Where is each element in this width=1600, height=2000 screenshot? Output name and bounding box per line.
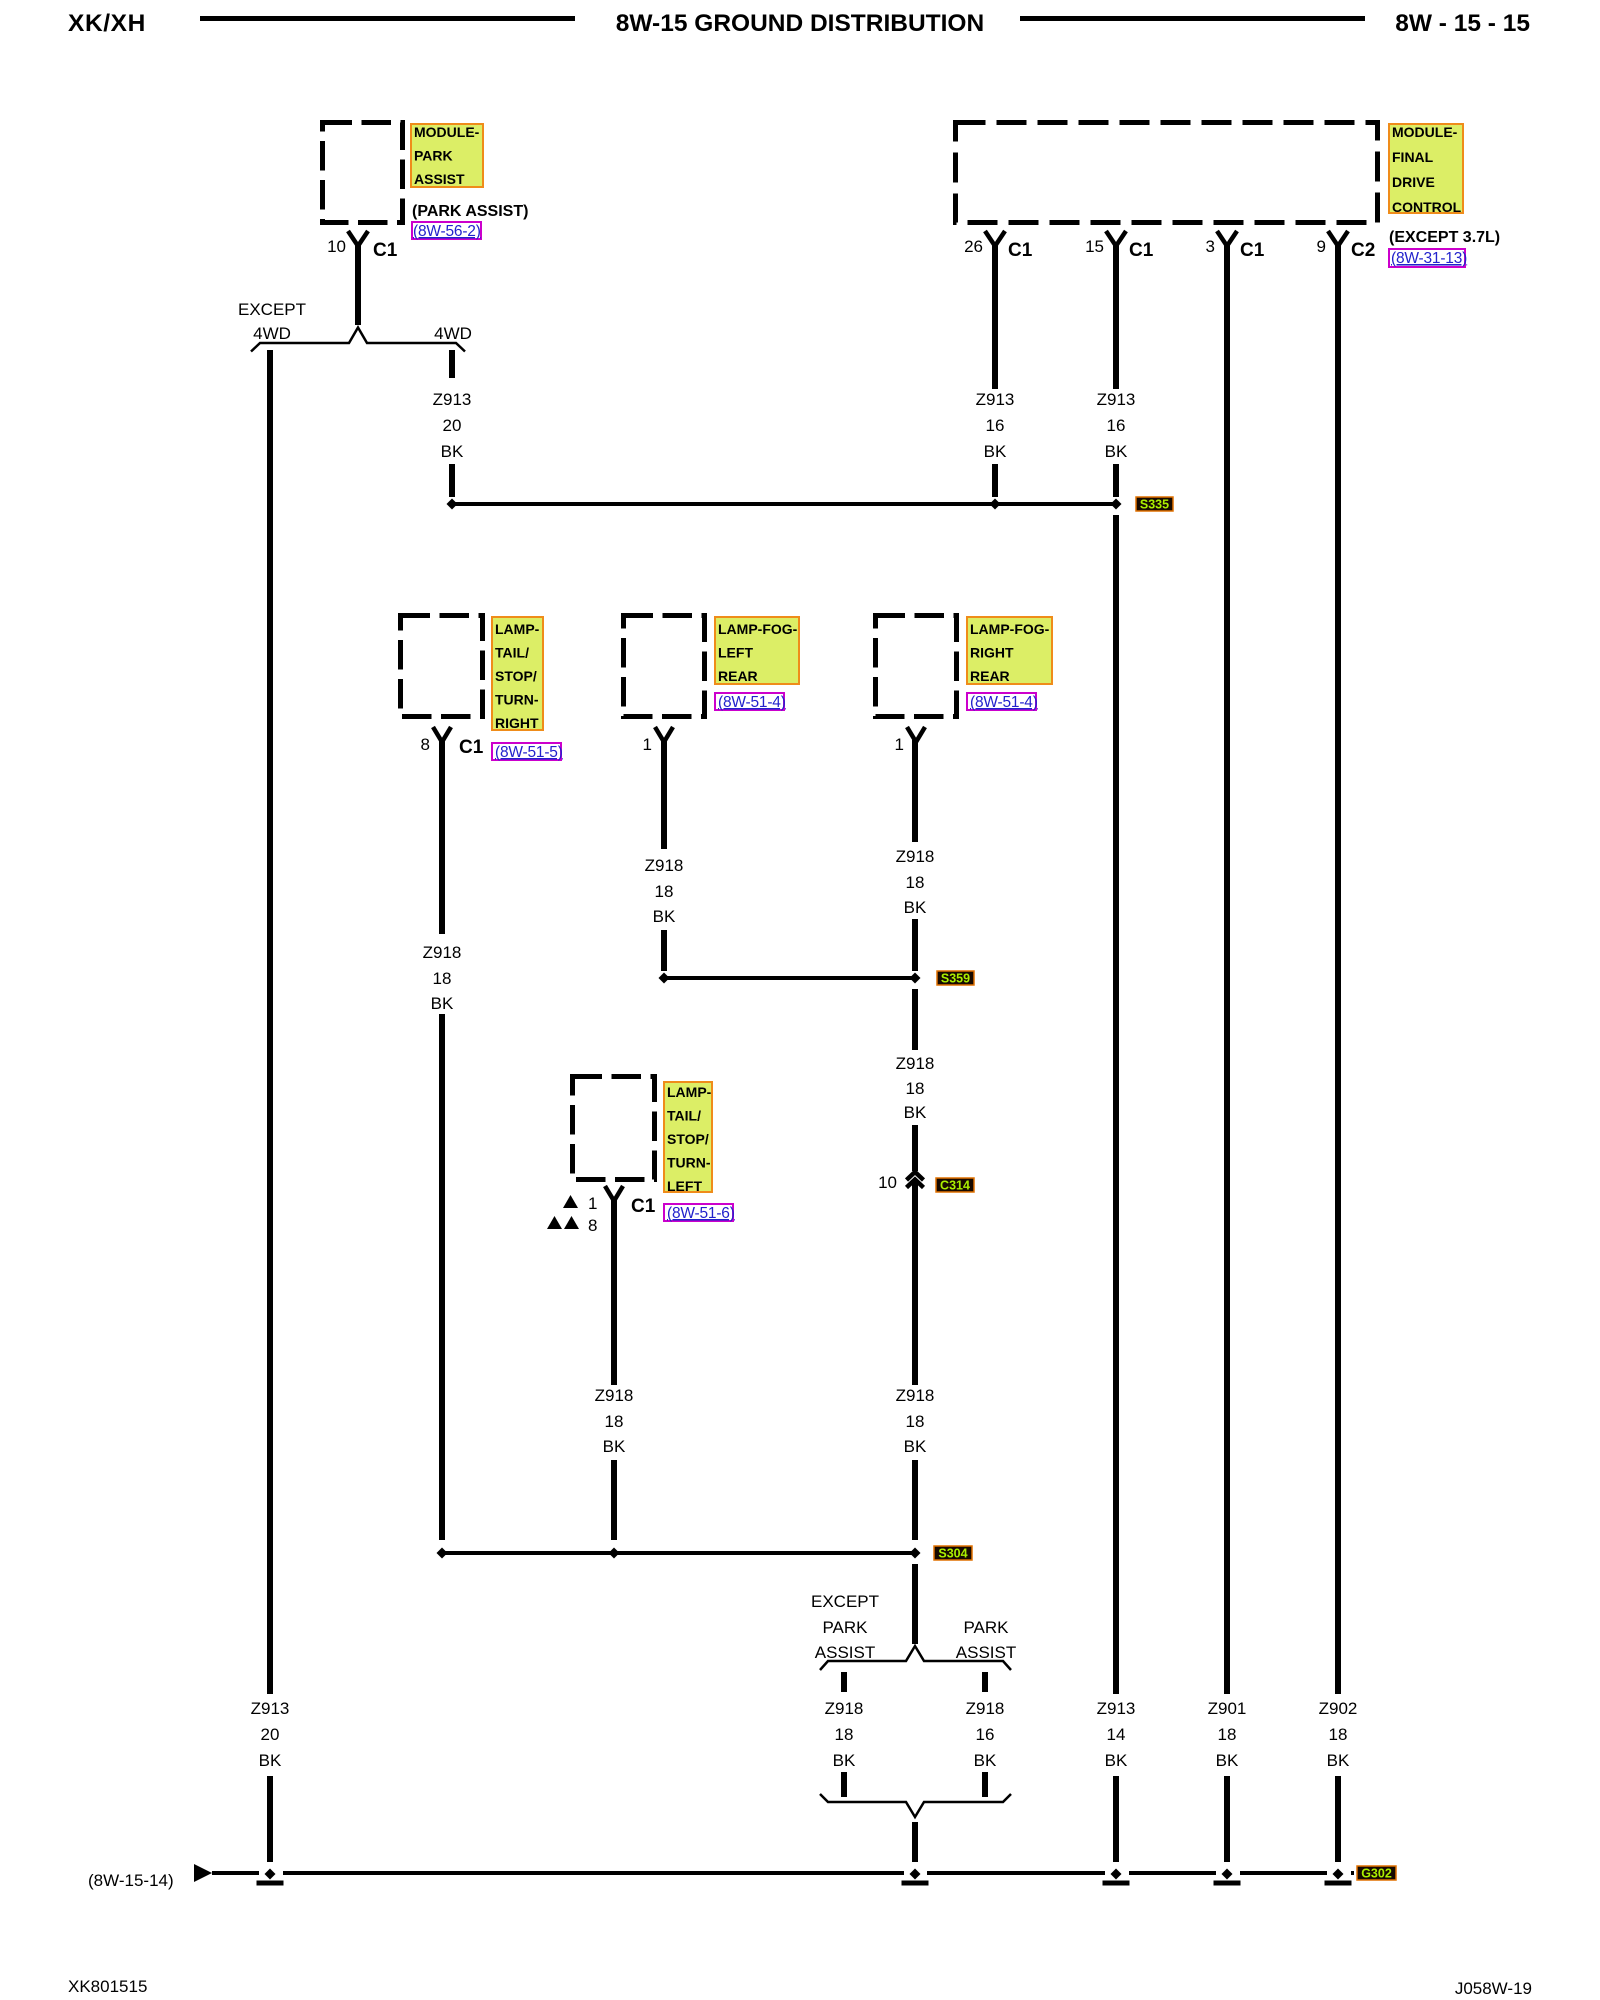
wire J labels Z918 18 BK — [595, 1386, 634, 1456]
svg-text:26: 26 — [964, 237, 983, 256]
svg-text:10: 10 — [327, 237, 346, 256]
junction diamond at wire D / S335 — [1111, 499, 1122, 510]
svg-text:9: 9 — [1317, 237, 1326, 256]
junction diamond at wire H / S359 — [659, 973, 670, 984]
option merge brace — [820, 1794, 1011, 1817]
splice S359 horizontal wire — [664, 976, 915, 980]
lamp L4 reference link (8W-51-6) — [664, 1204, 735, 1222]
ground tick under wire E — [1214, 1881, 1241, 1886]
svg-text:C1: C1 — [459, 737, 484, 758]
lamp L4: LAMP-TAIL/STOP/TURN-LEFT dashed outline — [573, 1077, 655, 1180]
junction diamond at wire I / S359 — [910, 973, 921, 984]
svg-text:Z918: Z918 — [896, 1386, 935, 1405]
svg-text:BK: BK — [974, 1751, 997, 1770]
lamp L2 reference link (8W-51-4) — [715, 693, 786, 711]
pin 1 on L3 — [895, 727, 925, 754]
wire below C314 — [912, 1181, 918, 1385]
svg-text:Z918: Z918 — [966, 1699, 1005, 1718]
svg-text:LAMP-: LAMP- — [495, 621, 540, 637]
svg-text:CONTROL: CONTROL — [1392, 199, 1462, 215]
svg-text:PARK: PARK — [414, 148, 453, 164]
pin 1 on L2 — [643, 727, 673, 754]
svg-text:C1: C1 — [1008, 240, 1033, 261]
lamp L3 reference link (8W-51-4) — [967, 693, 1038, 711]
module U1 reference link (8W-56-2) — [412, 222, 481, 240]
svg-text:8W-15 GROUND DISTRIBUTION: 8W-15 GROUND DISTRIBUTION — [616, 10, 984, 37]
pin 15 of connector C1 on U2 — [1085, 231, 1154, 261]
svg-text:XK801515: XK801515 — [68, 1977, 147, 1996]
svg-text:8: 8 — [588, 1216, 597, 1235]
module U2 label: MODULE-FINAL DRIVE CONTROL (highlighted) — [1389, 124, 1463, 215]
svg-text:BK: BK — [984, 442, 1007, 461]
svg-text:BK: BK — [1216, 1751, 1239, 1770]
svg-text:S335: S335 — [1140, 498, 1169, 512]
svg-text:TURN-: TURN- — [495, 692, 539, 708]
wire below S304 — [912, 1564, 918, 1644]
variant marker double triangle pin 8 — [547, 1216, 597, 1235]
ground tick under park-assist branch — [902, 1881, 929, 1886]
svg-text:1: 1 — [643, 735, 652, 754]
svg-text:BK: BK — [603, 1437, 626, 1456]
svg-text:BK: BK — [1105, 1751, 1128, 1770]
svg-text:1: 1 — [588, 1194, 597, 1213]
svg-text:LEFT: LEFT — [718, 645, 753, 661]
svg-text:Z913: Z913 — [433, 390, 472, 409]
branch wire right labels Z918 16 BK — [966, 1699, 1005, 1770]
svg-text:4WD: 4WD — [434, 324, 472, 343]
junction diamond wire D / bus — [1111, 1869, 1122, 1880]
lamp L2: LAMP-FOG-LEFT REAR dashed outline — [624, 616, 705, 717]
wire G long segment to S304 — [439, 1014, 445, 1540]
svg-text:(8W-15-14): (8W-15-14) — [88, 1871, 174, 1890]
option split brace (EXCEPT 4WD / 4WD) — [251, 328, 465, 352]
module U1 label: MODULE-PARK ASSIST (highlighted) — [411, 124, 483, 187]
svg-text:S359: S359 — [941, 972, 970, 986]
wire from merge to ground bus — [912, 1822, 918, 1862]
ground tick under wire D — [1103, 1881, 1130, 1886]
svg-text:PARK: PARK — [963, 1618, 1009, 1637]
svg-text:C1: C1 — [1240, 240, 1265, 261]
svg-text:8: 8 — [421, 735, 430, 754]
branch wire left (EXCEPT PARK ASSIST) upper stub — [841, 1672, 847, 1692]
svg-text:J058W-19: J058W-19 — [1455, 1979, 1532, 1998]
wire B labels Z913 20 BK — [433, 390, 472, 461]
svg-text:Z918: Z918 — [423, 943, 462, 962]
svg-text:ASSIST: ASSIST — [414, 171, 465, 187]
svg-text:BK: BK — [904, 1437, 927, 1456]
lamp L1 reference link (8W-51-5) — [492, 743, 563, 761]
pin 3 of connector C1 on U2 — [1206, 231, 1265, 261]
svg-text:RIGHT: RIGHT — [495, 715, 539, 731]
svg-text:REAR: REAR — [970, 668, 1010, 684]
wire E lower segment to ground bus — [1224, 1776, 1230, 1862]
ground bus segment 3 — [927, 1871, 1105, 1875]
svg-text:10: 10 — [878, 1173, 897, 1192]
junction diamond at wire B / S335 — [447, 499, 458, 510]
branch wire right lower stub — [982, 1772, 988, 1797]
wire J: Z918 18 BK from L4 — [611, 1199, 617, 1385]
ground bus segment 5 — [1240, 1871, 1327, 1875]
wire A labels Z913 20 BK — [251, 1699, 290, 1770]
branch wire left labels Z918 18 BK — [825, 1699, 864, 1770]
svg-text:(8W-31-13): (8W-31-13) — [1391, 250, 1467, 267]
svg-text:TURN-: TURN- — [667, 1155, 711, 1171]
lamp L1 label: LAMP-TAIL/STOP/TURN-RIGHT (highlighted) — [492, 617, 543, 731]
header rule left — [200, 16, 575, 21]
splice S335 horizontal wire — [452, 502, 1116, 506]
svg-text:STOP/: STOP/ — [667, 1131, 709, 1147]
svg-text:MODULE-: MODULE- — [414, 124, 480, 140]
svg-text:(EXCEPT 3.7L): (EXCEPT 3.7L) — [1389, 229, 1500, 246]
wire B lower segment to splice line — [449, 464, 455, 497]
junction diamond at wire J / S304 — [609, 1548, 620, 1559]
svg-text:LEFT: LEFT — [667, 1178, 702, 1194]
wire H labels Z918 18 BK — [645, 856, 684, 926]
svg-text:C1: C1 — [1129, 240, 1154, 261]
svg-text:BK: BK — [431, 994, 454, 1013]
wire B: Z913 20 BK (4WD) upper segment — [449, 350, 455, 378]
svg-text:1: 1 — [895, 735, 904, 754]
wire F lower segment to ground bus — [1335, 1776, 1341, 1862]
svg-text:18: 18 — [433, 969, 452, 988]
svg-text:C314: C314 — [940, 1179, 970, 1193]
option label PARK ASSIST — [956, 1618, 1016, 1662]
lamp L1: LAMP-TAIL/STOP/TURN-RIGHT dashed outline — [401, 616, 483, 717]
wire F labels Z902 18 BK — [1319, 1699, 1358, 1770]
svg-text:Z913: Z913 — [1097, 390, 1136, 409]
pin 26 of connector C1 on U2 — [964, 231, 1033, 261]
wire segment into connector C314 — [912, 1125, 918, 1171]
svg-text:Z913: Z913 — [976, 390, 1015, 409]
ground bus wire to G302 — [212, 1871, 259, 1875]
wire H lower segment to S359 — [661, 930, 667, 971]
svg-text:BK: BK — [441, 442, 464, 461]
svg-text:18: 18 — [906, 1412, 925, 1431]
svg-text:G302: G302 — [1361, 1867, 1392, 1881]
pin 8 of connector C1 on L1 — [421, 727, 484, 758]
svg-text:18: 18 — [1218, 1725, 1237, 1744]
wire A lower segment to ground bus — [267, 1776, 273, 1862]
wire F: Z902 18 BK from U2 pin 9 — [1335, 244, 1341, 1694]
wire I labels Z918 18 BK — [896, 847, 935, 917]
svg-text:16: 16 — [986, 416, 1005, 435]
branch wire right (PARK ASSIST) upper stub — [982, 1672, 988, 1692]
svg-text:EXCEPT: EXCEPT — [238, 300, 306, 319]
ground tick under wire F — [1325, 1881, 1352, 1886]
wire I: Z918 18 BK from L3 pin 1 — [912, 740, 918, 842]
lamp L4 label: LAMP-TAIL/STOP/TURN-LEFT (highlighted) — [664, 1082, 712, 1194]
svg-text:Z918: Z918 — [595, 1386, 634, 1405]
wire C: Z913 16 BK from U2 pin 26 — [992, 244, 998, 389]
svg-text:LAMP-FOG-: LAMP-FOG- — [718, 621, 798, 637]
svg-text:Z901: Z901 — [1208, 1699, 1247, 1718]
junction diamond at wire I / S304 — [910, 1548, 921, 1559]
wire I lower segment to S359 — [912, 919, 918, 971]
svg-text:EXCEPT: EXCEPT — [811, 1592, 879, 1611]
svg-text:BK: BK — [653, 907, 676, 926]
svg-text:LAMP-: LAMP- — [667, 1084, 712, 1100]
pin 10 of connector C1 on U1 — [327, 231, 398, 261]
svg-text:3: 3 — [1206, 237, 1215, 256]
wire A: Z913 20 BK (EXCEPT 4WD) long vertical — [267, 350, 273, 1694]
svg-text:C2: C2 — [1351, 240, 1375, 261]
wire C labels Z913 16 BK — [976, 390, 1015, 461]
wire D lower segment to ground bus — [1113, 1776, 1119, 1862]
wire E labels Z901 18 BK — [1208, 1699, 1247, 1770]
lamp L3: LAMP-FOG-RIGHT REAR dashed outline — [876, 616, 957, 717]
svg-text:18: 18 — [1329, 1725, 1348, 1744]
svg-text:20: 20 — [261, 1725, 280, 1744]
svg-text:BK: BK — [904, 898, 927, 917]
wire segment to S304 (right) — [912, 1460, 918, 1540]
svg-text:RIGHT: RIGHT — [970, 645, 1014, 661]
svg-text:15: 15 — [1085, 237, 1104, 256]
junction diamond wire F / bus — [1333, 1869, 1344, 1880]
lamp L2 label: LAMP-FOG-LEFT REAR (highlighted) — [715, 617, 799, 684]
ground label G302 — [1357, 1866, 1396, 1881]
svg-text:ASSIST: ASSIST — [815, 1643, 875, 1662]
svg-text:S304: S304 — [938, 1547, 967, 1561]
junction diamond park-assist branch / bus — [910, 1869, 921, 1880]
module U2: MODULE-FINAL DRIVE CONTROL dashed outline — [956, 123, 1378, 223]
wire G: Z918 18 BK from L1 pin 8 — [439, 740, 445, 934]
wire below S359: Z918 18 BK — [912, 989, 918, 1050]
svg-text:TAIL/: TAIL/ — [667, 1108, 701, 1124]
connector C1 on L4 — [605, 1186, 656, 1217]
wire labels Z918 18 BK above S304 (right) — [896, 1386, 935, 1456]
splice S304 horizontal wire — [442, 1551, 915, 1555]
svg-text:PARK: PARK — [822, 1618, 868, 1637]
wire C lower segment to splice line — [992, 464, 998, 497]
branch wire left lower stub — [841, 1772, 847, 1797]
svg-text:XK/XH: XK/XH — [68, 10, 146, 37]
svg-text:16: 16 — [976, 1725, 995, 1744]
lamp L3 label: LAMP-FOG-RIGHT REAR (highlighted) — [967, 617, 1052, 684]
junction diamond at wire C / S335 — [990, 499, 1001, 510]
svg-text:BK: BK — [1327, 1751, 1350, 1770]
svg-text:4WD: 4WD — [253, 324, 291, 343]
svg-text:ASSIST: ASSIST — [956, 1643, 1016, 1662]
wire labels Z918 18 BK above C314 — [896, 1054, 935, 1122]
svg-text:Z913: Z913 — [251, 1699, 290, 1718]
svg-text:BK: BK — [1105, 442, 1128, 461]
wire G labels Z918 18 BK — [423, 943, 462, 1013]
svg-text:STOP/: STOP/ — [495, 668, 537, 684]
svg-text:(8W-56-2): (8W-56-2) — [413, 223, 481, 240]
wire from U1 pin 10 down to option split — [355, 244, 361, 325]
wire D labels Z913 14 BK — [1097, 1699, 1136, 1770]
wire H: Z918 18 BK from L2 pin 1 — [661, 740, 667, 849]
splice label S335 — [1136, 497, 1173, 512]
svg-text:14: 14 — [1107, 1725, 1126, 1744]
ground bus segment 2 — [283, 1871, 904, 1875]
svg-text:Z913: Z913 — [1097, 1699, 1136, 1718]
option label EXCEPT PARK ASSIST — [811, 1592, 879, 1662]
svg-text:FINAL: FINAL — [1392, 149, 1434, 165]
svg-text:16: 16 — [1107, 416, 1126, 435]
splice label S304 — [934, 1546, 972, 1561]
svg-text:(8W-51-5): (8W-51-5) — [495, 744, 563, 761]
svg-text:BK: BK — [259, 1751, 282, 1770]
svg-text:Z918: Z918 — [825, 1699, 864, 1718]
connector label C314 — [936, 1178, 974, 1193]
svg-text:18: 18 — [835, 1725, 854, 1744]
wire J segment to S304 — [611, 1460, 617, 1540]
svg-text:BK: BK — [833, 1751, 856, 1770]
variant marker triangle pin 1 — [563, 1194, 597, 1213]
svg-text:Z918: Z918 — [645, 856, 684, 875]
svg-text:C1: C1 — [631, 1196, 656, 1217]
junction diamond wire A / bus — [265, 1869, 276, 1880]
option split brace (EXCEPT PARK ASSIST / PARK ASSIST) — [820, 1646, 1011, 1670]
svg-text:18: 18 — [906, 1079, 925, 1098]
wire D segment to splice S335 — [1113, 464, 1119, 497]
wire E: Z901 18 BK from U2 pin 3 — [1224, 244, 1230, 1694]
pin 9 of connector C2 on U2 — [1317, 231, 1376, 261]
svg-text:DRIVE: DRIVE — [1392, 174, 1435, 190]
svg-text:(8W-51-4): (8W-51-4) — [970, 694, 1038, 711]
svg-text:(8W-51-4): (8W-51-4) — [718, 694, 786, 711]
svg-text:C1: C1 — [373, 240, 398, 261]
wire D long segment below S335 — [1113, 515, 1119, 1694]
svg-text:8W - 15 - 15: 8W - 15 - 15 — [1395, 10, 1530, 37]
ground bus segment 6 — [1351, 1871, 1354, 1875]
header rule right — [1020, 16, 1365, 21]
ground bus segment 4 — [1129, 1871, 1216, 1875]
module U1: MODULE-PARK ASSIST dashed outline — [323, 123, 403, 223]
in-line connector C314 (pin 10) — [907, 1172, 924, 1188]
ground tick under wire A — [257, 1881, 284, 1886]
module U2 reference link (8W-31-13) — [1389, 249, 1467, 267]
svg-text:Z918: Z918 — [896, 1054, 935, 1073]
svg-text:REAR: REAR — [718, 668, 758, 684]
svg-text:LAMP-FOG-: LAMP-FOG- — [970, 621, 1050, 637]
junction diamond wire E / bus — [1222, 1869, 1233, 1880]
svg-text:MODULE-: MODULE- — [1392, 124, 1458, 140]
svg-text:18: 18 — [906, 873, 925, 892]
svg-text:18: 18 — [655, 882, 674, 901]
off-page arrow — [194, 1864, 212, 1882]
svg-text:(PARK ASSIST): (PARK ASSIST) — [412, 203, 528, 220]
svg-text:20: 20 — [443, 416, 462, 435]
wire D labels Z913 16 BK — [1097, 390, 1136, 461]
junction diamond at wire G / S304 — [437, 1548, 448, 1559]
wire D: Z913 16 BK from U2 pin 15 — [1113, 244, 1119, 389]
splice label S359 — [937, 971, 974, 986]
svg-text:Z902: Z902 — [1319, 1699, 1358, 1718]
svg-text:18: 18 — [605, 1412, 624, 1431]
svg-text:Z918: Z918 — [896, 847, 935, 866]
svg-text:TAIL/: TAIL/ — [495, 645, 529, 661]
svg-text:(8W-51-6): (8W-51-6) — [667, 1205, 735, 1222]
svg-text:BK: BK — [904, 1103, 927, 1122]
